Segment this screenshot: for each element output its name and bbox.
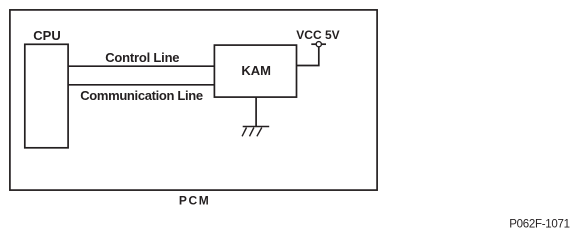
PCM enclosure box — [10, 10, 377, 190]
VCC terminal circle — [316, 42, 321, 47]
ground symbol — [243, 126, 270, 128]
CPU block — [25, 44, 68, 148]
svg-text:Communication Line: Communication Line — [80, 88, 203, 103]
wire: Communication Line CPU to KAM — [68, 84, 214, 86]
svg-text:Control Line: Control Line — [105, 50, 179, 65]
svg-text:CPU: CPU — [33, 28, 60, 43]
svg-text:VCC 5V: VCC 5V — [296, 28, 339, 42]
svg-text:P062F-1071: P062F-1071 — [509, 219, 570, 231]
wire: KAM to VCC terminal — [297, 47, 319, 66]
svg-text:PCM: PCM — [179, 194, 210, 208]
wire: KAM to ground — [255, 97, 257, 126]
svg-text:KAM: KAM — [241, 63, 271, 78]
wire: Control Line CPU to KAM — [68, 65, 214, 67]
KAM block U1 — [214, 45, 296, 97]
VCC terminal ticks — [311, 43, 316, 45]
